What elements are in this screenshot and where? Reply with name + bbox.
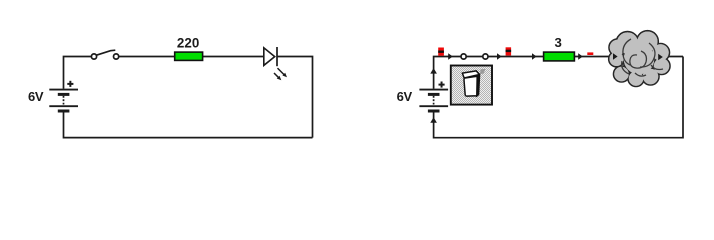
charge marker (red) on top wire near corner — [438, 48, 444, 56]
current arrow (right) after switch S2 — [497, 53, 502, 59]
switch S2 (closed) terminal circle (right) — [483, 54, 488, 59]
battery B1 negative short plate (cell 1) — [58, 93, 70, 96]
current arrow (right) entering smoke cloud — [613, 53, 618, 59]
current arrow (right) before resistor R2 — [532, 53, 537, 59]
battery B2 positive long plate — [419, 89, 448, 91]
battery B2 positive long plate (cell 2) — [419, 105, 448, 107]
battery B1 positive long plate — [49, 89, 78, 91]
LED D1 emission arrow 2 — [274, 73, 281, 80]
LED D1 cathode bar — [276, 47, 278, 66]
battery B1 dotted link between cells — [63, 96, 65, 105]
battery B1 negative short plate (cell 2) — [58, 110, 70, 113]
LED D1 anode triangle — [264, 48, 275, 66]
wire: right circuit right side and bottom — [434, 57, 683, 138]
battery B2 polarity + sign — [439, 82, 445, 88]
charge marker (red bar) after resistor R2 — [587, 52, 593, 55]
wire: left circuit top side (battery top to switch) — [64, 57, 92, 89]
current arrow (up) on left wire above battery B2 — [430, 68, 437, 74]
switch actuator icon box (gray dithered pushbutton panel) — [451, 66, 492, 105]
battery B1 polarity + sign — [67, 81, 73, 87]
current arrow (right) leaving smoke cloud — [658, 54, 663, 60]
wire: switch to resistor R1 — [119, 56, 175, 58]
switch S1 terminal circle (left) — [91, 54, 96, 59]
LED D1 emission arrow 1 — [278, 68, 288, 77]
smoke cloud (blown component) — [609, 31, 670, 87]
switch actuator rocker right side face (dark) — [476, 71, 479, 97]
svg-text:220: 220 — [177, 35, 199, 50]
charge marker (red) between switch and resistor R2 — [506, 47, 512, 55]
wire: LED D1 to top-right corner and right side down — [277, 57, 313, 138]
switch S1 terminal circle (right) — [114, 54, 119, 59]
battery B1 positive long plate (cell 2) — [49, 105, 78, 107]
switch S2 (closed) terminal circle (left) — [461, 54, 466, 59]
svg-text:6V: 6V — [397, 89, 413, 104]
smoke cloud swirl lines — [622, 39, 663, 76]
wire: left circuit bottom side — [64, 112, 313, 138]
battery B2 negative short plate (cell 2) — [428, 110, 440, 113]
wire: resistor R1 to LED D1 — [203, 56, 264, 58]
battery B2 dotted link between cells — [433, 96, 435, 105]
current arrow (right) after resistor R2 — [578, 53, 583, 59]
switch S1 (open) lever — [96, 50, 115, 55]
switch actuator rocker top face — [462, 71, 479, 78]
wire: right circuit top side (battery top, corner, across to cloud) — [434, 57, 683, 89]
current arrow (up) below battery B2 — [430, 117, 437, 123]
svg-text:3: 3 — [555, 35, 562, 50]
switch actuator shadow mark — [480, 69, 486, 74]
resistor R1 body (220 ohm) — [175, 52, 203, 60]
resistor R2 body (3 ohm) — [544, 52, 575, 61]
current arrow (right) before switch S2 — [448, 53, 453, 59]
switch actuator rocker front face — [464, 76, 477, 96]
battery B2 negative short plate (cell 1) — [428, 93, 440, 96]
svg-text:6V: 6V — [28, 89, 44, 104]
